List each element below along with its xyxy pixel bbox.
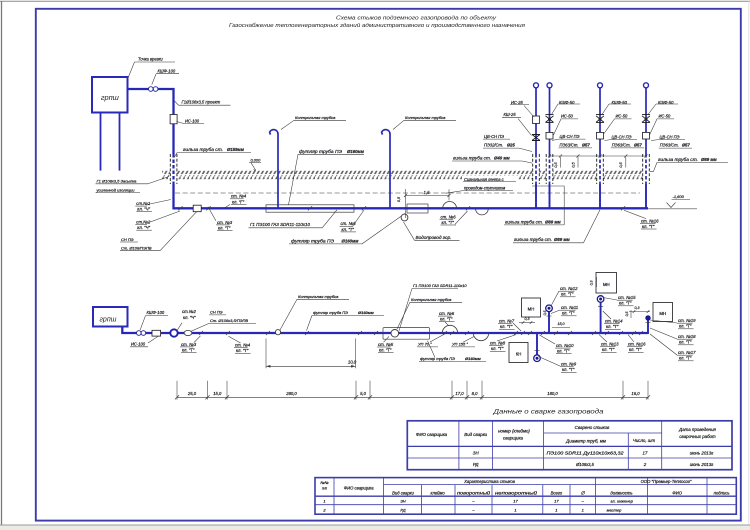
svg-text:ПЭ63/Ст.: ПЭ63/Ст.	[612, 142, 631, 147]
journal table frame	[315, 478, 736, 515]
valve KShF-50	[596, 115, 604, 123]
weld joint rect SN PE on pipe	[193, 205, 201, 212]
stub B riser down x=537	[536, 333, 538, 355]
svg-text:17,0: 17,0	[455, 391, 464, 396]
svg-text:0,5: 0,5	[625, 312, 629, 317]
svg-text:гильза труба ст.: гильза труба ст.	[505, 219, 543, 224]
svg-text:КН: КН	[516, 351, 522, 356]
svg-text:ЦВ-СН ПЭ: ЦВ-СН ПЭ	[612, 134, 632, 139]
svg-text:ЦВ-СН ПЭ: ЦВ-СН ПЭ	[484, 134, 504, 139]
svg-text:РД: РД	[400, 507, 405, 512]
weld ticks on stubs	[547, 315, 552, 317]
svg-text:кл. “Т”: кл. “Т”	[606, 324, 619, 329]
insulating joint IS-50	[643, 132, 650, 139]
bend arc down (lower)	[473, 333, 488, 341]
water pipe circle crossing	[401, 214, 408, 221]
svg-text:кл. “Т”: кл. “Т”	[379, 348, 392, 353]
svg-text:КШФ-100: КШФ-100	[147, 310, 165, 315]
svg-text:ФИО сварщика: ФИО сварщика	[416, 432, 448, 437]
svg-text:ЦВ-СН ПЭ: ЦВ-СН ПЭ	[660, 134, 680, 139]
svg-text:ст.№1: ст.№1	[136, 201, 151, 206]
svg-text:Число, шт: Число, шт	[633, 438, 656, 443]
svg-text:ПЭ63/Ст.: ПЭ63/Ст.	[660, 143, 679, 148]
dim 1.5 (upper)	[406, 195, 450, 197]
svg-text:№№: №№	[320, 481, 328, 485]
svg-text:1: 1	[514, 507, 516, 512]
svg-text:1: 1	[582, 507, 584, 512]
svg-text:0,3: 0,3	[635, 306, 640, 310]
svg-text:Контрольная трубка: Контрольная трубка	[405, 115, 446, 120]
svg-text:футляр труба ПЭ: футляр труба ПЭ	[299, 149, 342, 154]
svg-text:Г1 Ø108х3,5 Засыпка: Г1 Ø108х3,5 Засыпка	[97, 179, 138, 184]
svg-text:17: 17	[513, 499, 518, 504]
journal table horizontals	[384, 484, 737, 486]
svg-text:0,5: 0,5	[543, 311, 547, 316]
valve KShF-100 (lower)	[137, 331, 142, 336]
svg-text:подпись: подпись	[714, 490, 730, 495]
svg-text:гл. инженер: гл. инженер	[610, 499, 633, 504]
svg-text:Ст. Ø108/ПЭПВ: Ст. Ø108/ПЭПВ	[121, 246, 152, 251]
svg-text:Схема стыков подземного газопр: Схема стыков подземного газопровода по о…	[336, 15, 496, 21]
svg-text:Ø57: Ø57	[682, 143, 690, 148]
svg-text:Характеристика стыков: Характеристика стыков	[463, 479, 516, 484]
svg-text:Данные о сварке газопровода: Данные о сварке газопровода	[492, 410, 604, 416]
riser pipe at x=549.5	[549, 88, 551, 209]
svg-text:ИС-50: ИС-50	[659, 114, 672, 119]
svg-text:Сварено стыков: Сварено стыков	[575, 425, 610, 430]
svg-text:Ø57: Ø57	[582, 142, 590, 147]
stub C riser up x=600.6	[600, 302, 602, 333]
svg-text:КШФ-100: КШФ-100	[158, 68, 176, 73]
svg-text:ИС-100: ИС-100	[131, 342, 146, 347]
svg-text:ст. №16: ст. №16	[628, 342, 646, 347]
svg-text:кл. “Т”: кл. “Т”	[679, 324, 692, 329]
svg-text:кл. “Ч”: кл. “Ч”	[137, 207, 150, 212]
bend arc down (upper)	[476, 209, 489, 215]
cabinet GRPSh (upper)	[92, 77, 128, 113]
svg-text:ООО “Премьер-Теплосог”: ООО “Премьер-Теплосог”	[641, 479, 692, 484]
svg-text:мастер: мастер	[607, 507, 623, 512]
svg-text:кл. “Т”: кл. “Т”	[642, 224, 655, 229]
svg-text:кл. “Т”: кл. “Т”	[182, 347, 195, 352]
stub A riser up x=549	[548, 312, 550, 334]
svg-text:ст. №15: ст. №15	[618, 295, 636, 300]
svg-text:Ø160мм: Ø160мм	[465, 356, 481, 361]
casing rect 1 (upper)	[266, 205, 354, 212]
svg-text:0,3: 0,3	[525, 317, 530, 321]
svg-text:5,0: 5,0	[360, 391, 366, 396]
riser sleeve x=646	[643, 154, 650, 184]
svg-text:должность: должность	[610, 490, 632, 495]
svg-text:ИС-50: ИС-50	[561, 114, 574, 119]
page top edge	[0, 0, 750, 2]
svg-text:Г1 ПЭ100 ГАЗ SDR11-110х10: Г1 ПЭ100 ГАЗ SDR11-110х10	[250, 222, 311, 227]
svg-text:гильза труба ст.: гильза труба ст.	[453, 156, 491, 161]
svg-text:Ø89 мм: Ø89 мм	[701, 157, 717, 162]
svg-text:0,5: 0,5	[397, 196, 401, 202]
svg-text:кл. “Т”: кл. “Т”	[561, 292, 574, 297]
svg-text:ЗН: ЗН	[400, 499, 405, 504]
svg-text:Ст. Ø108х3,5/ПЭПВ: Ст. Ø108х3,5/ПЭПВ	[210, 318, 248, 323]
weld ticks upper pipe	[178, 206, 182, 210]
svg-text:ст.№2: ст.№2	[182, 309, 197, 314]
svg-text:проводом-спутником: проводом-спутником	[464, 186, 505, 191]
svg-text:180,0: 180,0	[547, 391, 558, 396]
svg-text:Диаметр труб, мм: Диаметр труб, мм	[565, 439, 606, 444]
insulating joint IS-100 (lower)	[152, 330, 161, 336]
control tube circle 1 (lower)	[275, 330, 280, 335]
svg-text:кл. “Т”: кл. “Т”	[500, 324, 513, 329]
svg-text:ст. №17: ст. №17	[678, 350, 696, 355]
svg-text:МН: МН	[528, 306, 535, 311]
svg-text:п/п: п/п	[322, 487, 328, 491]
riser pipe at x=600	[599, 88, 601, 209]
svg-text:кл. “Т”: кл. “Т”	[342, 227, 355, 232]
coupling ring (lower)	[170, 329, 177, 336]
svg-text:Г1Ø108х3,5 проект: Г1Ø108х3,5 проект	[182, 99, 221, 104]
svg-text:1,5: 1,5	[424, 190, 431, 195]
svg-text:кл. “Т”: кл. “Т”	[619, 301, 632, 306]
main gas pipe (lower plan)	[122, 327, 648, 334]
svg-text:гильза труба ст.: гильза труба ст.	[658, 157, 698, 162]
page right edge	[748, 1, 750, 524]
svg-text:Водопровод гор.: Водопровод гор.	[416, 235, 452, 240]
box KN B	[509, 343, 528, 363]
svg-text:ст. №5: ст. №5	[378, 342, 394, 347]
svg-text:2: 2	[643, 462, 647, 467]
svg-text:-1,600: -1,600	[673, 194, 685, 199]
svg-text:гильза труба ст.: гильза труба ст.	[183, 147, 223, 152]
svg-text:Ø89 мм: Ø89 мм	[545, 219, 561, 224]
svg-text:футляр труба ПЭ: футляр труба ПЭ	[291, 238, 334, 243]
signal tape dashed line	[175, 192, 640, 194]
svg-text:Сигнальная лента с: Сигнальная лента с	[464, 177, 504, 182]
svg-text:ст. №4: ст. №4	[231, 194, 247, 199]
svg-text:0,3: 0,3	[590, 281, 594, 286]
svg-text:25,0: 25,0	[187, 391, 197, 396]
svg-text:грпш: грпш	[99, 316, 116, 323]
svg-text:ст. №6: ст. №6	[439, 311, 455, 316]
svg-text:1: 1	[323, 499, 325, 504]
welding table verticals	[458, 421, 460, 470]
svg-text:ст. №7: ст. №7	[499, 319, 515, 324]
svg-text:ст. №18: ст. №18	[678, 334, 696, 339]
page left edge	[1, 1, 3, 525]
svg-text:Ø40 мм: Ø40 мм	[494, 156, 510, 161]
svg-text:Ø160мм: Ø160мм	[342, 238, 360, 243]
dims 0.5 between risers	[550, 155, 647, 157]
svg-text:поворотный: поворотный	[457, 490, 491, 495]
page bottom shadow strip	[0, 526, 750, 530]
svg-text:МН: МН	[659, 311, 666, 316]
svg-text:клеймо: клеймо	[430, 490, 445, 495]
control tube 2 (upper)	[382, 130, 390, 209]
riser top ring x=549.5	[547, 83, 552, 88]
svg-text:Вид сварки: Вид сварки	[392, 490, 414, 495]
valve KShF-50	[546, 115, 554, 123]
svg-text:Газоснабжение теплогенераторны: Газоснабжение теплогенераторных зданий а…	[229, 22, 525, 29]
svg-text:ст.№2: ст.№2	[136, 220, 151, 225]
svg-text:КШ-25: КШ-25	[504, 112, 517, 117]
svg-text:15,0: 15,0	[213, 391, 222, 396]
svg-text:сварщика: сварщика	[503, 435, 524, 440]
valve KShF-100 (upper)	[149, 87, 154, 92]
svg-text:ИС-100: ИС-100	[185, 118, 200, 123]
svg-text:Ø160мм: Ø160мм	[358, 310, 374, 315]
svg-text:Вид сварки: Вид сварки	[464, 432, 487, 437]
svg-text:кл. “Т”: кл. “Т”	[562, 367, 575, 372]
svg-text:Ø89 мм: Ø89 мм	[554, 237, 570, 242]
valve KSh-25	[532, 135, 540, 141]
stub D pipe end up x=648	[647, 318, 649, 334]
riser top ring x=646	[644, 83, 649, 88]
svg-text:280,0: 280,0	[285, 391, 297, 396]
svg-text:Ø57: Ø57	[634, 142, 642, 147]
svg-text:Точка врезки: Точка врезки	[138, 57, 163, 62]
svg-text:Всего: Всего	[551, 490, 563, 495]
svg-text:10,0: 10,0	[348, 360, 357, 365]
lower dimension line	[177, 396, 649, 398]
svg-text:ПЭ63/Ст.: ПЭ63/Ст.	[560, 142, 579, 147]
svg-text:июнь 2013г: июнь 2013г	[690, 451, 714, 456]
main gas pipe G1 (upper profile run)	[128, 89, 649, 208]
control tube circle 2 (lower)	[391, 330, 399, 338]
insulating joint IS-50	[546, 132, 553, 139]
box MN A	[522, 298, 541, 317]
svg-text:Г1 ПЭ100 ГАЗ SDR11-110х10: Г1 ПЭ100 ГАЗ SDR11-110х10	[413, 283, 467, 288]
welding table frame	[407, 421, 732, 470]
riser top ring x=536	[534, 83, 539, 88]
svg-text:Контрольная трубка: Контрольная трубка	[298, 294, 339, 299]
datum line right	[648, 208, 697, 210]
svg-text:ст. №13: ст. №13	[601, 342, 619, 347]
box MN C	[596, 273, 617, 294]
welding table horizontals	[544, 432, 662, 434]
svg-text:ст. №3: ст. №3	[217, 220, 233, 225]
svg-text:15,0: 15,0	[558, 322, 565, 326]
svg-text:ст. №11: ст. №11	[561, 305, 579, 310]
svg-text:МН: МН	[603, 282, 610, 287]
weld ticks lower pipe	[199, 331, 203, 335]
svg-text:кл. “Т”: кл. “Т”	[442, 220, 455, 225]
svg-text:ст. №14: ст. №14	[605, 319, 623, 324]
svg-text:ст. №8: ст. №8	[490, 341, 506, 346]
svg-text:грпш: грпш	[101, 93, 119, 102]
svg-text:кл. “Т”: кл. “Т”	[562, 311, 575, 316]
svg-text:Ø25: Ø25	[507, 143, 515, 148]
riser pipe at x=646	[645, 88, 647, 209]
svg-text:кл. “Т”: кл. “Т”	[679, 340, 692, 345]
dim bracket 10.0	[265, 339, 267, 369]
valve KShF-50	[642, 115, 650, 123]
page bottom edge	[0, 524, 750, 526]
svg-text:РД: РД	[473, 462, 479, 467]
svg-text:кл. “Т”: кл. “Т”	[218, 225, 231, 230]
riser top ring x=600	[598, 83, 603, 88]
riser sleeve x=600	[597, 154, 604, 184]
svg-text:ст. №5: ст. №5	[341, 221, 357, 226]
signal tape label	[462, 176, 518, 183]
svg-text:ИС-50: ИС-50	[616, 114, 629, 119]
bend arc up (upper)	[443, 202, 457, 209]
ground hatch band (upper profile)	[162, 171, 644, 179]
svg-text:Ø160мм: Ø160мм	[347, 149, 365, 154]
svg-text:гильза труба ст.: гильза труба ст.	[514, 237, 552, 242]
svg-text:номер (клеймо): номер (клеймо)	[498, 429, 530, 434]
svg-text:кл. “Т”: кл. “Т”	[440, 317, 453, 322]
riser sleeve x=536	[533, 154, 540, 184]
svg-text:ПЭ32/Ст.: ПЭ32/Ст.	[484, 143, 503, 148]
svg-text:ст. №19: ст. №19	[678, 318, 696, 323]
svg-text:кл. “Т”: кл. “Т”	[679, 356, 692, 361]
svg-text:Ø159мм: Ø159мм	[227, 147, 245, 152]
insulating joint IS-25	[533, 116, 540, 124]
svg-text:усиленной изоляции: усиленной изоляции	[96, 187, 136, 192]
svg-text:неповоротный: неповоротный	[495, 490, 538, 495]
svg-text:ФИО сварщика: ФИО сварщика	[344, 486, 374, 491]
svg-text:ЗН: ЗН	[473, 451, 480, 456]
svg-text:кл. “Т”: кл. “Т”	[236, 348, 249, 353]
svg-text:1: 1	[555, 507, 557, 512]
svg-text:кл. “Т”: кл. “Т”	[629, 347, 642, 352]
svg-text:ст. №4: ст. №4	[235, 343, 251, 348]
riser pipe at x=536	[535, 88, 537, 209]
svg-text:июнь 2013г: июнь 2013г	[690, 462, 714, 467]
svg-text:ст. №9: ст. №9	[561, 362, 577, 367]
casing rect (lower)	[383, 328, 430, 340]
cabinet GRPSh (lower)	[93, 307, 128, 327]
svg-text:СН ПЭ: СН ПЭ	[121, 237, 134, 242]
svg-text:ст. №3: ст. №3	[181, 342, 197, 347]
bend arc up (lower)	[442, 325, 457, 333]
insulating joint IS-50	[597, 132, 604, 139]
svg-text:8,0: 8,0	[472, 391, 478, 396]
svg-text:футляр труба ПЭ: футляр труба ПЭ	[420, 356, 455, 361]
hatch band middle gap	[162, 174, 644, 175]
svg-text:ст. №12: ст. №12	[560, 286, 578, 291]
svg-text:кл. “Т”: кл. “Т”	[557, 349, 570, 354]
svg-text:17: 17	[643, 451, 648, 456]
svg-text:0,000: 0,000	[251, 157, 262, 162]
svg-text:ПЭ100 SDR11 Ду110х10х63,32: ПЭ100 SDR11 Ду110х10х63,32	[547, 451, 625, 456]
svg-text:17: 17	[554, 499, 559, 504]
svg-text:футляр труба ПЭ: футляр труба ПЭ	[313, 310, 348, 315]
svg-text:УП 155 °: УП 155 °	[452, 342, 468, 347]
svg-text:Контрольная трубка: Контрольная трубка	[295, 115, 336, 120]
svg-text:кл. “Т”: кл. “Т”	[491, 346, 504, 351]
journal table verticals	[333, 478, 335, 515]
svg-text:ст. №16: ст. №16	[641, 218, 659, 223]
riser sleeve x=549.5	[546, 154, 553, 184]
casing rect 2 (upper)	[407, 204, 428, 213]
box MN D	[653, 303, 673, 322]
svg-text:ст. №6: ст. №6	[441, 214, 457, 219]
svg-text:ЦВ-СН ПЭ: ЦВ-СН ПЭ	[560, 134, 580, 139]
svg-text:Дата проведения: Дата проведения	[678, 427, 716, 432]
lens transition piece	[184, 330, 192, 335]
svg-text:кл. “Ч”: кл. “Ч”	[137, 225, 150, 230]
GRPSh legs	[100, 113, 102, 171]
control tube 1 (upper)	[270, 130, 278, 209]
svg-text:кл. “Т”: кл. “Т”	[602, 347, 615, 352]
svg-text:16,0: 16,0	[631, 391, 640, 396]
svg-text:кл. “Ч”: кл. “Ч”	[183, 315, 196, 320]
svg-text:Контрольная трубка: Контрольная трубка	[411, 297, 452, 302]
svg-text:сварочных работ: сварочных работ	[679, 434, 716, 439]
svg-text:Ø108х3,5: Ø108х3,5	[575, 462, 594, 467]
svg-text:СН ПЭ: СН ПЭ	[210, 310, 223, 315]
sleeve on riser pipe at GRPSh	[170, 154, 177, 184]
svg-text:кл. “Г”: кл. “Г”	[232, 199, 245, 204]
svg-text:ст. №10: ст. №10	[556, 343, 574, 348]
svg-text:ФИО: ФИО	[672, 490, 682, 495]
insulating joint IS-100 (upper)	[170, 115, 177, 124]
